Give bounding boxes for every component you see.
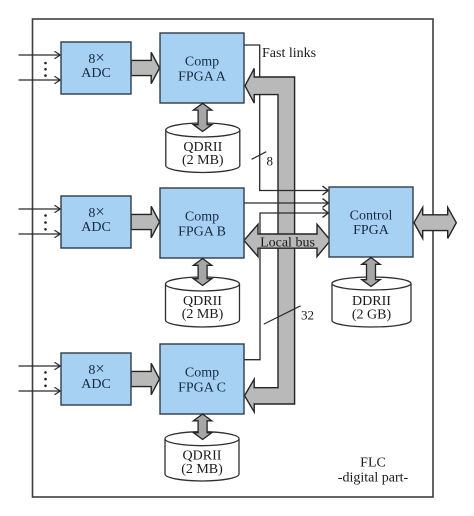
svg-text:ADC: ADC bbox=[81, 220, 111, 235]
svg-text:(2 MB): (2 MB) bbox=[182, 307, 224, 322]
svg-text:(2 GB): (2 GB) bbox=[352, 307, 392, 322]
svg-text:Control: Control bbox=[350, 209, 393, 224]
svg-text:Fast links: Fast links bbox=[262, 46, 316, 61]
svg-text:-digital part-: -digital part- bbox=[338, 471, 409, 486]
svg-text:Comp: Comp bbox=[185, 209, 219, 224]
svg-text:32: 32 bbox=[301, 308, 314, 323]
svg-text:FPGA C: FPGA C bbox=[178, 381, 226, 396]
svg-text:ADC: ADC bbox=[81, 377, 111, 392]
svg-text:FPGA: FPGA bbox=[353, 223, 390, 238]
svg-text:FLC: FLC bbox=[360, 456, 386, 471]
svg-text:Comp: Comp bbox=[185, 54, 219, 69]
svg-text:ADC: ADC bbox=[81, 66, 111, 81]
svg-text:FPGA A: FPGA A bbox=[178, 70, 227, 85]
svg-text:Local bus: Local bus bbox=[260, 236, 315, 251]
svg-text:(2 MB): (2 MB) bbox=[181, 462, 223, 477]
svg-text:FPGA B: FPGA B bbox=[178, 225, 226, 240]
svg-text:Comp: Comp bbox=[185, 365, 219, 380]
svg-text:(2 MB): (2 MB) bbox=[182, 153, 224, 168]
svg-text:8: 8 bbox=[267, 154, 274, 169]
